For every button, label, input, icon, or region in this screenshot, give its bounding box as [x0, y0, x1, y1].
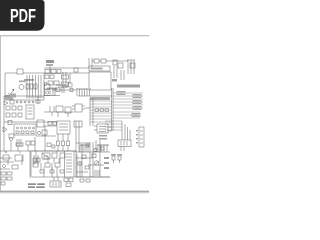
capacitor C831 — [38, 132, 41, 135]
wire: reg drops — [52, 112, 68, 117]
transistor Q701 — [42, 153, 50, 159]
resistor R821 — [6, 106, 10, 110]
wire: amp horizontals — [76, 143, 104, 172]
capacitor bank comb 1 — [79, 144, 89, 146]
resistor R710 — [3, 155, 9, 160]
resistor R621 — [69, 178, 73, 182]
resistor R611 — [86, 179, 90, 182]
IC821 audio — [57, 121, 70, 134]
thermistor TH801 — [44, 83, 47, 86]
wire: ground rail left — [0, 150, 44, 152]
capacitor bank comb 2 — [97, 144, 109, 146]
X-capacitor C802 — [30, 84, 33, 89]
wire: harness line 2 — [113, 95, 143, 97]
wire: opto drop — [37, 96, 39, 104]
wire: feedback top — [58, 86, 68, 88]
resistor R614 — [101, 147, 104, 150]
wire: harness left rail — [112, 88, 114, 131]
resistor R805 — [54, 81, 59, 85]
wire: secondary grid line 6 — [90, 115, 112, 117]
label net H — [132, 113, 140, 116]
resistor R717 — [1, 182, 5, 185]
wire: audio feed — [44, 125, 57, 127]
transformer T802 — [17, 139, 21, 147]
wire: harness stub 2 — [105, 123, 122, 125]
label net GND — [133, 100, 141, 103]
resistor R831 — [26, 141, 30, 145]
label 12V — [112, 79, 117, 82]
resistor R601 — [74, 121, 82, 127]
label title line 2 — [28, 186, 35, 188]
label net 12V — [117, 91, 125, 94]
wire: harness bends — [122, 121, 130, 140]
resistor R703 — [33, 163, 38, 167]
label band secondary — [90, 97, 110, 100]
wire: harness stub 4 — [105, 129, 122, 131]
resistor R715 — [1, 177, 6, 180]
choke L801 winding comb — [27, 75, 41, 99]
wire: mid row — [36, 135, 56, 137]
label title line 1 — [28, 183, 36, 185]
X-capacitor C803 — [34, 84, 37, 89]
wire: main AC bus L — [44, 67, 89, 69]
label band IC — [89, 66, 110, 71]
wire: harness line 3 — [113, 98, 143, 100]
capacitor C835 — [52, 145, 55, 148]
wire: secondary grid line 3 — [90, 106, 112, 108]
resistor R709 — [60, 170, 64, 173]
bridge rectifier BD801 — [63, 72, 66, 88]
resistor R612 — [86, 144, 89, 147]
label column 2 — [104, 162, 109, 164]
wire: snubber drops — [114, 66, 117, 78]
wire: left drop — [30, 152, 32, 176]
resistor R622 — [66, 183, 71, 187]
resistor R705 — [55, 163, 60, 167]
fuse F801 — [19, 85, 24, 90]
capacitor C804 — [45, 75, 49, 79]
wire: micro pins — [94, 126, 112, 131]
resistor R833 — [42, 130, 47, 135]
wire: micro rails — [76, 121, 79, 152]
capacitor C612 — [85, 166, 89, 169]
terminal strip TB701 — [65, 151, 75, 177]
wire: board inner links — [41, 158, 59, 170]
wire: bulk cap drop — [69, 73, 71, 83]
wire: harness line 5 — [113, 104, 143, 106]
capacitor C815 — [32, 101, 34, 103]
resistor R803 — [57, 70, 61, 74]
resistor R825 — [12, 113, 16, 117]
bulk capacitor C805 — [68, 83, 72, 87]
capacitor C814 — [28, 101, 30, 103]
label net 5V — [133, 94, 141, 97]
IC811 regulator — [26, 105, 34, 119]
wire: comb feeds — [96, 140, 100, 152]
resistor R708 — [50, 170, 54, 173]
wire: audio ground — [44, 146, 76, 152]
snubber resistor R812 — [118, 63, 123, 68]
capacitor C830 — [10, 138, 13, 141]
resistor R804 — [48, 81, 53, 85]
resistor R810 — [94, 59, 99, 63]
capacitor C701 — [34, 155, 38, 165]
IC801 PWM outline — [89, 72, 111, 90]
wire: low-volt bus — [4, 121, 57, 123]
capacitor C833 — [62, 134, 64, 141]
X-capacitor C801 — [26, 84, 29, 89]
wire: left link — [0, 156, 22, 169]
PDF badge — [0, 0, 45, 31]
wire: secondary grid line 5 — [90, 112, 112, 114]
wire: amp verticals long — [82, 142, 100, 177]
resistor R701 — [52, 153, 57, 158]
wire: secondary grid line 8 — [90, 121, 112, 123]
AC plug P801 — [8, 89, 14, 98]
label fuse — [19, 81, 26, 83]
capacitor C620 — [111, 154, 116, 156]
wire: clamp drops — [121, 70, 124, 80]
resistor R711 — [15, 155, 23, 161]
connector CN803 — [139, 127, 144, 147]
wire: ground drops — [11, 137, 35, 151]
resistor R716 — [7, 177, 12, 180]
resistor R702 — [60, 153, 65, 158]
wire: micro feed pair — [90, 98, 93, 126]
wire: harness line 9 — [113, 117, 140, 119]
capacitor C621 — [117, 154, 122, 156]
resistor R713 — [1, 172, 6, 175]
resistor R809 — [74, 68, 78, 72]
IC601 micro — [97, 124, 108, 133]
resistor R824 — [6, 113, 10, 117]
capacitor comb C615 — [95, 170, 99, 176]
resistor R832 — [31, 141, 35, 145]
resistor R707 — [40, 170, 44, 173]
capacitor C812 — [20, 101, 22, 103]
capacitor C821 — [62, 87, 64, 93]
wire: feedback — [52, 89, 76, 91]
resistor R613 — [94, 149, 97, 152]
resistor R835 — [48, 122, 52, 126]
connector CN601 — [50, 181, 61, 187]
label feedback — [56, 84, 66, 86]
snubber diode D810 — [113, 60, 117, 65]
wire: secondary left rail — [3, 96, 5, 151]
capacitor C813 — [24, 101, 26, 103]
wire: comb output — [78, 95, 112, 97]
resistor R830 — [8, 121, 12, 125]
resistor R827 — [36, 100, 40, 103]
resistor R802 — [51, 70, 56, 74]
label column 3 — [104, 167, 109, 169]
capacitor C706 — [44, 156, 48, 159]
wire: main AC bus N — [44, 72, 89, 74]
capacitor C702 — [3, 165, 6, 168]
transformer T801 core — [127, 60, 135, 74]
capacitor C610 — [82, 155, 86, 159]
relay RL601 — [75, 104, 82, 112]
capacitor C822 — [50, 106, 54, 112]
wire: regulator row — [44, 111, 74, 113]
startup resistor R801 — [46, 60, 54, 63]
resistor R828 — [56, 88, 60, 92]
resistor R820 — [10, 100, 14, 104]
label net B+ — [133, 106, 141, 109]
wire: bottom rail — [76, 176, 110, 178]
wire: harness line 7 — [113, 111, 140, 113]
optocoupler IC802 — [45, 84, 51, 89]
resistor R822 — [12, 106, 16, 110]
ground — [5, 151, 20, 153]
page sheet — [0, 35, 149, 193]
resistor R712 — [12, 165, 18, 169]
capacitor C806 — [50, 75, 54, 79]
resistor R823 — [18, 106, 22, 110]
connector CN802 — [118, 140, 131, 147]
label bridge — [47, 88, 57, 90]
line filter FL801 — [17, 69, 23, 74]
capacitor C832 — [57, 134, 59, 141]
wire: secondary top — [4, 95, 44, 97]
resistor R829 — [70, 89, 73, 92]
wire: secondary grid line 7 — [90, 118, 112, 120]
wire: harness stub 3 — [105, 126, 122, 128]
resistor R714 — [7, 172, 12, 175]
wire: harness line 8 — [113, 114, 140, 116]
resistor R610 — [80, 179, 84, 182]
resistor R840 — [37, 120, 44, 127]
capacitor C834 — [67, 134, 69, 141]
diode D811 — [4, 101, 8, 105]
capacitor C811 — [16, 101, 18, 103]
wire: harness stub 1 — [105, 120, 122, 122]
transformer T801 primary pins comb — [76, 88, 91, 90]
regulator IC813 — [65, 107, 71, 113]
wire: board verticals — [36, 151, 60, 163]
connector jack pack — [14, 124, 36, 135]
transistor Q601 — [94, 161, 98, 165]
zener ZD801 — [53, 88, 55, 96]
wire: micro ground — [76, 151, 110, 153]
resistor R826 — [18, 113, 22, 117]
diode D812 — [3, 127, 7, 132]
regulator IC812 — [56, 106, 63, 112]
relay RL801 — [45, 70, 50, 74]
label DEGAUSS — [24, 79, 34, 81]
wire: board drops — [44, 167, 57, 177]
wire: harness line 4 — [113, 101, 143, 103]
wire: secondary grid line 1 — [90, 100, 112, 102]
wire: secondary grid line 2 — [90, 103, 112, 105]
svg-text:PDF: PDF — [10, 5, 36, 26]
wire: connector tails — [121, 147, 124, 152]
wire: PWM verticals — [89, 58, 92, 68]
wire: secondary grid line 4 — [90, 109, 112, 111]
wire: AC input box outline — [5, 73, 44, 100]
resistor R811 — [101, 59, 106, 63]
label part number strip — [117, 85, 140, 88]
capacitor C611 — [92, 154, 96, 158]
resistor R836 — [53, 122, 57, 126]
wire: comb base ticks — [26, 97, 43, 98]
wire: audio left drop — [44, 126, 46, 151]
wire: harness line 6 — [113, 107, 143, 109]
resistor R620 — [64, 178, 68, 182]
label column 1 — [104, 157, 109, 159]
resistor R604 row — [95, 109, 99, 112]
resistor R615 — [78, 162, 82, 165]
wire: harness line 1 — [113, 92, 143, 94]
main board outline — [30, 151, 76, 177]
wire: snubber top — [92, 60, 128, 62]
resistor R704 — [45, 163, 50, 167]
wire: opto lower — [44, 95, 60, 97]
wire: amp verticals — [77, 154, 80, 177]
resistor R834 — [47, 143, 51, 147]
rectifier blob — [10, 94, 16, 98]
